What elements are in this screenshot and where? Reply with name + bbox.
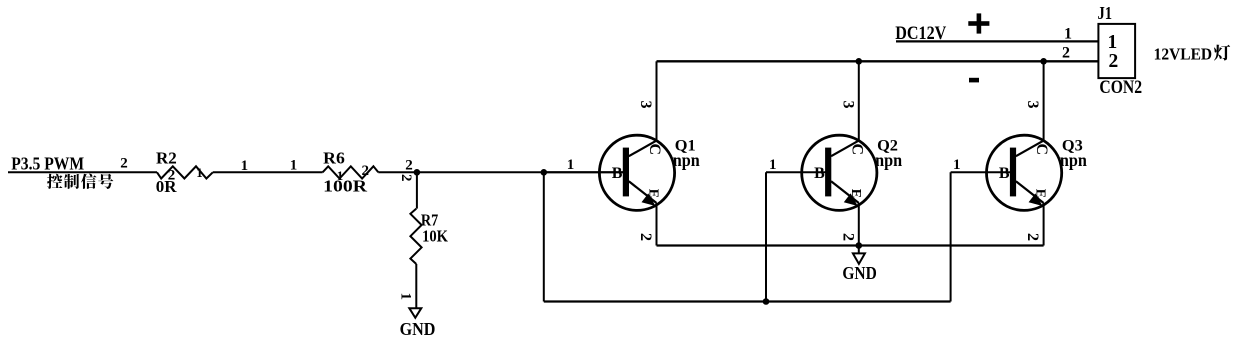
node R6/R7 junction [414, 169, 421, 176]
Q2 base bar [825, 148, 831, 197]
svg-text:J1: J1 [1098, 3, 1113, 23]
resistor R7 [410, 209, 421, 264]
Q3 emitter riser wire [1043, 203, 1045, 246]
Q1 collector line [629, 141, 657, 157]
svg-text:2: 2 [362, 163, 370, 179]
wire collector bus (LED-) [657, 60, 1099, 62]
wire R7 to ground [415, 264, 417, 308]
svg-text:2: 2 [1024, 233, 1041, 241]
transistor Q3 body circle [987, 135, 1062, 210]
resistor R6 [323, 166, 379, 178]
svg-text:2: 2 [1109, 51, 1119, 72]
Q2 collector line [831, 141, 859, 157]
Q2 emitter line [831, 181, 859, 203]
minus symbol [969, 78, 979, 83]
wire DC12V+ to J1 pin1 [896, 40, 1098, 42]
Q2 base wire [766, 171, 826, 173]
svg-text:2: 2 [1062, 44, 1070, 61]
Q1 emitter line [629, 181, 657, 203]
svg-text:3: 3 [637, 101, 654, 109]
wire junction to R7 [416, 172, 418, 208]
Q3 collector riser wire [1043, 61, 1045, 141]
svg-text:1: 1 [1108, 32, 1118, 53]
net label 控制信号 (control signal) [47, 174, 62, 189]
Q1 collector riser wire [656, 61, 658, 141]
ground symbol (R7) [409, 308, 421, 318]
wire P3.5 signal [8, 171, 157, 173]
svg-text:npn: npn [875, 150, 902, 170]
Q1 emitter arrow [642, 193, 656, 206]
Q3 base wire [951, 171, 1012, 173]
svg-text:B: B [814, 165, 825, 182]
node Q2 collector junction [856, 58, 863, 65]
transistor Q2 body circle [802, 135, 877, 210]
svg-text:DC12V: DC12V [895, 23, 946, 44]
svg-text:2: 2 [405, 157, 413, 173]
node bottom bus junction [763, 298, 770, 305]
svg-text:2: 2 [120, 155, 128, 171]
svg-text:C: C [848, 144, 865, 156]
node Q3 collector junction [1040, 58, 1047, 65]
node Q2 emitter junction [856, 242, 863, 249]
Q1 emitter riser wire [656, 203, 658, 246]
svg-text:npn: npn [1060, 150, 1087, 170]
svg-text:1: 1 [241, 158, 249, 174]
wire base junction down [543, 172, 545, 301]
Q3 base bar [1010, 148, 1016, 197]
svg-text:1: 1 [1064, 25, 1072, 42]
svg-text:npn: npn [673, 150, 700, 170]
wire R2 to R6 [213, 171, 323, 173]
svg-text:1: 1 [769, 157, 777, 173]
svg-text:2: 2 [839, 233, 856, 241]
svg-text:2: 2 [168, 168, 176, 184]
Q2 collector riser wire [858, 61, 860, 141]
Q3 emitter arrow [1029, 193, 1043, 206]
node base-bus junction [541, 169, 548, 176]
svg-text:1: 1 [567, 157, 575, 173]
wire Q3 base vertical [950, 172, 952, 301]
svg-text:R2: R2 [156, 148, 177, 167]
transistor Q1 body circle [599, 135, 674, 210]
svg-text:E: E [646, 189, 661, 198]
wire base bottom bus [544, 300, 951, 302]
Q3 emitter line [1016, 181, 1044, 203]
ground symbol (Q2 emitter) [853, 253, 865, 264]
plus symbol [968, 13, 989, 33]
Q1 base wire [544, 171, 624, 173]
svg-text:3: 3 [1024, 101, 1041, 109]
wire R6 to Q1 base [378, 171, 623, 173]
svg-text:GND: GND [842, 263, 876, 283]
svg-text:P3.5 PWM: P3.5 PWM [11, 153, 84, 173]
connector J1 box [1098, 24, 1135, 78]
svg-text:2: 2 [398, 174, 414, 182]
svg-text:2: 2 [637, 233, 654, 241]
svg-text:R6: R6 [323, 149, 345, 168]
Q2 emitter arrow [844, 193, 858, 206]
svg-text:B: B [612, 165, 623, 182]
Q2 emitter riser wire [858, 203, 860, 246]
svg-text:1: 1 [953, 157, 961, 173]
wire Q2 base vertical [765, 172, 767, 301]
svg-text:CON2: CON2 [1099, 77, 1142, 98]
svg-text:3: 3 [839, 101, 856, 109]
svg-text:E: E [848, 189, 863, 198]
svg-text:C: C [646, 144, 663, 156]
svg-text:1: 1 [290, 158, 298, 174]
Q1 base bar [623, 148, 629, 197]
svg-text:C: C [1033, 144, 1050, 156]
svg-text:1: 1 [337, 168, 344, 183]
svg-text:100R: 100R [323, 177, 368, 196]
wire emitter bus (GND) [657, 244, 1044, 246]
resistor R2 [157, 166, 213, 178]
svg-text:B: B [999, 165, 1010, 182]
svg-text:1: 1 [196, 165, 203, 180]
Q3 collector line [1016, 141, 1044, 157]
svg-text:12VLED: 12VLED [1154, 44, 1213, 63]
svg-text:E: E [1033, 189, 1048, 198]
svg-text:10K: 10K [422, 227, 449, 246]
svg-text:GND: GND [400, 319, 436, 339]
svg-text:1: 1 [398, 293, 414, 301]
